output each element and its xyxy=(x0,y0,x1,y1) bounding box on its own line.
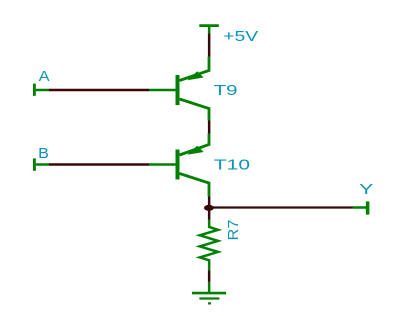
wire junction to Y xyxy=(209,206,353,208)
port Y xyxy=(353,201,368,214)
svg-text:+5V: +5V xyxy=(223,29,258,45)
svg-text:Y: Y xyxy=(359,182,373,198)
resistor R7 xyxy=(200,220,218,271)
ground xyxy=(192,282,226,304)
wire A to T9 base xyxy=(49,89,149,92)
svg-text:R7: R7 xyxy=(226,220,242,241)
svg-text:A: A xyxy=(39,69,50,85)
transistor T9 xyxy=(149,57,209,121)
junction node xyxy=(204,205,214,211)
wire T9 collector to T10 emitter xyxy=(208,121,211,134)
port B xyxy=(34,158,49,170)
svg-text:T10: T10 xyxy=(214,157,250,173)
wire R7 to ground xyxy=(208,270,211,282)
transistor T10 xyxy=(149,134,209,197)
wire +5V to T9 emitter xyxy=(208,33,211,56)
svg-text:B: B xyxy=(38,146,49,162)
port A xyxy=(34,84,49,96)
svg-text:T9: T9 xyxy=(214,83,238,99)
wire T10 collector to junction xyxy=(208,197,211,220)
power +5V symbol xyxy=(199,26,219,34)
wire B to T10 base xyxy=(49,163,149,166)
